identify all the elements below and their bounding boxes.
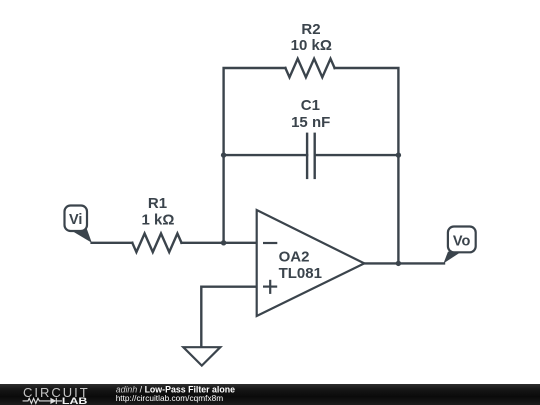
svg-text:LAB: LAB xyxy=(62,396,88,405)
svg-text:R2: R2 xyxy=(301,21,320,38)
svg-text:Vi: Vi xyxy=(69,212,82,228)
svg-text:R1: R1 xyxy=(148,195,167,212)
svg-text:1 kΩ: 1 kΩ xyxy=(142,212,175,229)
svg-text:15 nF: 15 nF xyxy=(291,114,330,131)
svg-text:http://circuitlab.com/cqmfx8m: http://circuitlab.com/cqmfx8m xyxy=(116,393,224,403)
svg-text:TL081: TL081 xyxy=(279,265,322,282)
svg-text:Vo: Vo xyxy=(453,234,471,250)
svg-text:10 kΩ: 10 kΩ xyxy=(291,37,332,54)
svg-text:OA2: OA2 xyxy=(279,248,310,265)
svg-text:C1: C1 xyxy=(301,97,320,114)
